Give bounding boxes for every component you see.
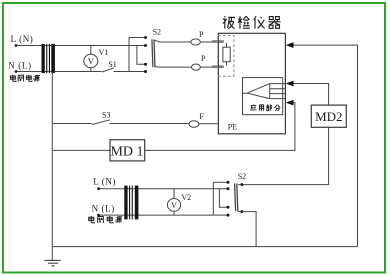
svg-text:V: V bbox=[171, 201, 177, 210]
label 应用部分 (applied part) bbox=[251, 104, 281, 110]
svg-text:S3: S3 bbox=[102, 111, 110, 120]
svg-text:N (L): N (L) bbox=[8, 60, 31, 70]
ground symbol bbox=[44, 260, 60, 266]
wire: MD2 bottom stem to lower S2 output bbox=[242, 127, 329, 184]
socket contact bar 2 bbox=[212, 65, 224, 68]
wire: lower S2 output 2 to earth line bbox=[238, 212, 256, 247]
svg-text:MD 1: MD 1 bbox=[110, 144, 143, 159]
arrow A3 into applied part bbox=[286, 100, 294, 106]
switch S1 blade bbox=[102, 68, 114, 72]
wire: left earth vertical bbox=[51, 72, 53, 261]
node: N terminal dot (lower) bbox=[97, 214, 100, 217]
transformer T2 (lower mains isolation bars) bbox=[124, 186, 138, 220]
resistor stem top bbox=[226, 43, 228, 47]
wire: bottom earth return line bbox=[52, 246, 357, 248]
svg-text:P: P bbox=[199, 30, 204, 39]
socket contact bar 1 bbox=[212, 40, 224, 43]
wire: mains L line (upper) bbox=[16, 45, 146, 47]
node: N terminal dot (upper) bbox=[15, 70, 18, 73]
switch S2 pole bars (upper) bbox=[152, 39, 153, 67]
plug pin P1 bbox=[191, 39, 200, 45]
switch S3 blade bbox=[92, 120, 110, 125]
probe tip F bbox=[189, 121, 199, 128]
transformer T1 (mains isolation bars) bbox=[42, 44, 55, 73]
voltmeter V2 stem bottom bbox=[173, 211, 175, 215]
voltmeter V1 stem bottom bbox=[90, 68, 92, 72]
dashed enclosure around input resistor bbox=[218, 35, 234, 76]
node: S2 contact dots bbox=[144, 36, 147, 73]
wire: to S2 contact 1 bbox=[129, 37, 146, 39]
svg-text:V1: V1 bbox=[99, 48, 109, 57]
wire: arrow A1 feed from right loop bbox=[293, 45, 357, 247]
wire: S3 PE line bbox=[52, 123, 91, 125]
device under test box 被检仪器 bbox=[218, 33, 285, 134]
node: lower S2 contact dots bbox=[227, 181, 230, 217]
svg-text:PE: PE bbox=[228, 122, 237, 131]
measuring device MD2 bbox=[311, 105, 346, 127]
voltmeter V1 bbox=[84, 54, 98, 67]
wire: arrow A2 feed to MD2 top bbox=[293, 84, 328, 106]
wire: F to PE terminal bbox=[199, 123, 219, 125]
wire: mains L line (lower) bbox=[99, 188, 228, 190]
svg-text:L (N): L (N) bbox=[93, 177, 116, 187]
wire: mains N line (lower) bbox=[99, 214, 214, 216]
wire: S3 to probe F bbox=[110, 123, 190, 125]
wire: lower S2 feed vertical (ties contacts 1 and 4) bbox=[212, 182, 214, 215]
label 电网电源 (mains supply) lower bbox=[89, 216, 122, 223]
plug pin P2 bbox=[192, 64, 201, 70]
arrow A1 into enclosure bbox=[286, 42, 294, 48]
node: L terminal dot (lower) bbox=[97, 187, 100, 190]
applied part electrode symbol (triangle fan) bbox=[243, 84, 270, 99]
wire: S2 output to plug pin P2 bbox=[155, 66, 192, 69]
wire: S2 feed vertical (ties contacts 1 and 4) bbox=[128, 38, 130, 72]
svg-text:V: V bbox=[88, 56, 95, 66]
svg-text:MD2: MD2 bbox=[315, 109, 342, 124]
wire: arrow A3 feed from MD1 bbox=[145, 103, 295, 151]
wire: mains N line (upper, to switch S1) bbox=[16, 71, 102, 73]
resistor stem bottom bbox=[226, 62, 228, 66]
wire: to S2 contact 4 bbox=[129, 71, 146, 73]
wire: N line after S1 bbox=[114, 71, 130, 73]
wire: to lower S2 contact 4 bbox=[213, 214, 228, 216]
node: lower S2 output dots bbox=[240, 183, 243, 213]
svg-text:S1: S1 bbox=[108, 60, 116, 69]
wire: L bracket to S2 contact 3 bbox=[137, 46, 146, 65]
wire: to lower S2 contact 1 bbox=[213, 181, 228, 183]
wire: S2 output to plug pin P1 bbox=[155, 40, 191, 42]
svg-text:L (N): L (N) bbox=[11, 34, 34, 44]
svg-text:S2: S2 bbox=[238, 172, 246, 181]
applied part electrode leads bbox=[270, 84, 285, 99]
title 被检仪器 (device under test) bbox=[223, 16, 281, 28]
svg-text:V2: V2 bbox=[181, 193, 191, 202]
svg-text:N (L): N (L) bbox=[92, 204, 115, 214]
node: L terminal dot (upper) bbox=[15, 44, 18, 47]
voltmeter V2 stem top bbox=[173, 189, 175, 199]
voltmeter V1 stem top bbox=[90, 46, 92, 55]
svg-text:F: F bbox=[199, 112, 204, 121]
svg-text:P: P bbox=[201, 54, 206, 63]
switch S2 pole bars (lower) bbox=[235, 183, 236, 211]
wire: MD1 left lead bbox=[52, 149, 110, 151]
voltmeter V2 bbox=[167, 199, 180, 212]
resistor R (input impedance) bbox=[223, 47, 230, 62]
arrow A2 into applied part bbox=[286, 81, 294, 87]
label 电网电源 (mains supply) upper bbox=[10, 75, 40, 82]
wire: output 1 stub bbox=[238, 184, 242, 186]
svg-text:S2: S2 bbox=[153, 28, 161, 37]
wire: lower L bracket to contact 3 bbox=[219, 189, 228, 208]
wire: P1 to socket contact bbox=[200, 41, 211, 43]
measuring device MD1 bbox=[110, 140, 145, 161]
wire: P2 to socket contact bbox=[200, 66, 211, 68]
applied part box 应用部分 bbox=[243, 78, 283, 115]
